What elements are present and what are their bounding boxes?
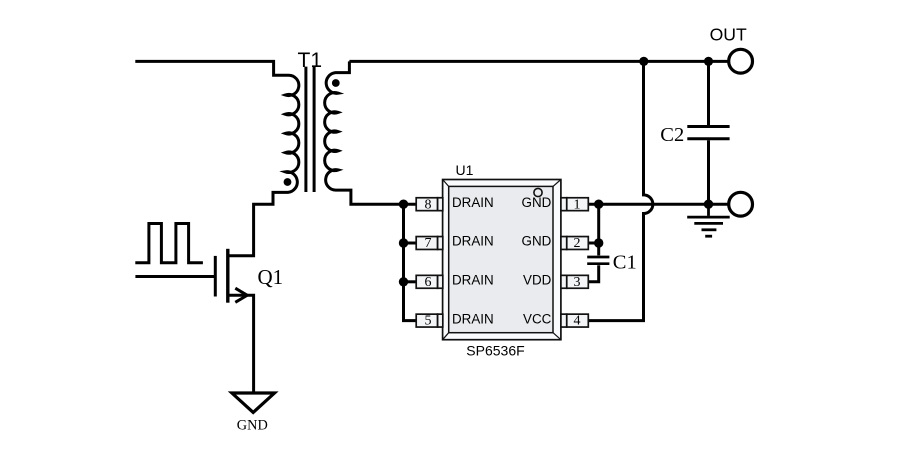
svg-text:DRAIN: DRAIN: [452, 273, 494, 288]
svg-text:DRAIN: DRAIN: [452, 311, 494, 326]
svg-text:4: 4: [574, 314, 581, 329]
svg-text:DRAIN: DRAIN: [452, 234, 494, 249]
svg-text:1: 1: [574, 197, 581, 212]
svg-text:C2: C2: [660, 124, 684, 146]
svg-text:U1: U1: [456, 162, 474, 178]
svg-text:3: 3: [574, 275, 581, 290]
svg-text:GND: GND: [522, 195, 552, 210]
svg-text:SP6536F: SP6536F: [466, 342, 524, 358]
svg-text:Q1: Q1: [258, 265, 284, 289]
svg-text:C1: C1: [613, 252, 637, 274]
svg-text:DRAIN: DRAIN: [452, 195, 494, 210]
svg-text:GND: GND: [522, 234, 552, 249]
svg-text:GND: GND: [237, 418, 268, 434]
svg-text:2: 2: [574, 236, 581, 251]
svg-text:VCC: VCC: [523, 311, 552, 326]
svg-text:OUT: OUT: [710, 25, 747, 45]
svg-text:7: 7: [425, 236, 432, 251]
svg-text:T1: T1: [298, 49, 323, 72]
svg-text:8: 8: [425, 197, 432, 212]
svg-text:VDD: VDD: [523, 273, 552, 288]
svg-text:6: 6: [425, 275, 432, 290]
svg-text:5: 5: [425, 314, 432, 329]
